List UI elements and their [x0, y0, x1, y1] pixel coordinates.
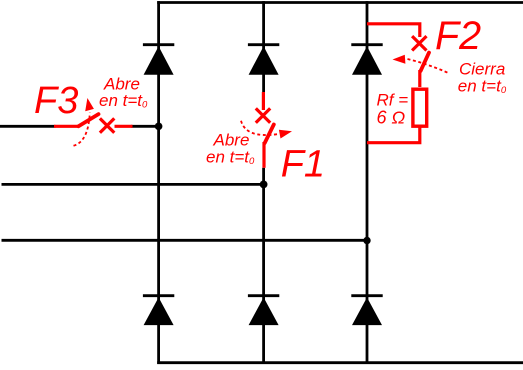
- switch F2 motion arrowhead: [393, 55, 406, 64]
- label resistor value Rf =: [377, 91, 409, 110]
- switch F3 contact cross mark: [100, 118, 114, 132]
- switch F1 contact cross mark: [256, 108, 270, 122]
- label F2 action en t=t0: [458, 77, 507, 97]
- wire leg 2 vertical upper: [262, 1, 265, 93]
- diode D1 top leg 1: [143, 45, 174, 75]
- switch F1 motion arrowhead: [279, 130, 292, 139]
- svg-text:en t=t0: en t=t0: [206, 148, 255, 168]
- label F1 action en t=t0: [206, 148, 255, 168]
- switch F2 contact cross mark: [412, 36, 426, 50]
- switch F2 blade: [421, 53, 429, 71]
- node junction dot phase B / leg 2: [260, 181, 268, 189]
- switch F3 opening motion dashed arc: [74, 113, 90, 146]
- diode D6 bottom leg 3: [351, 296, 382, 325]
- diode D5 bottom leg 2: [248, 296, 279, 325]
- wire leg 3 vertical: [366, 1, 369, 364]
- switch F3 wire right stub: [115, 125, 133, 128]
- node junction dot phase C / leg 3: [363, 237, 370, 244]
- wire phase B input: [2, 183, 264, 186]
- switch F3 wire left stub: [54, 125, 79, 128]
- node junction dot phase A / leg 1: [155, 123, 163, 131]
- label F3: [34, 80, 78, 122]
- switch F2 branch bottom wire: [367, 128, 420, 143]
- switch F1 wire bottom stub: [262, 142, 265, 168]
- wire leg 1 vertical: [157, 1, 160, 364]
- switch F2 branch top wire: [367, 24, 420, 37]
- svg-text:6 Ω: 6 Ω: [377, 107, 406, 127]
- switch F1 wire top stub: [262, 92, 265, 110]
- switch F2 closing motion dashed arc: [408, 59, 450, 74]
- label F3 action Abre: [103, 75, 140, 94]
- diode D2 top leg 2: [248, 45, 279, 75]
- switch F3 motion arrowhead: [85, 98, 94, 111]
- label resistor value 6 ohm: [377, 107, 406, 127]
- svg-text:F2: F2: [435, 14, 481, 58]
- label F3 action en t=t0: [99, 91, 148, 111]
- label F1: [281, 144, 325, 186]
- wire top DC+ rail: [157, 1, 523, 4]
- wire phase C input: [2, 239, 368, 242]
- diode D3 top leg 3: [351, 45, 382, 75]
- switch F1 blade: [265, 125, 274, 144]
- label F2 action Cierra: [459, 60, 505, 79]
- svg-text:en t=t0: en t=t0: [99, 91, 148, 111]
- svg-text:F3: F3: [34, 80, 78, 122]
- switch F1 opening motion dashed arc: [241, 121, 277, 135]
- svg-text:en t=t0: en t=t0: [458, 77, 507, 97]
- svg-text:F1: F1: [281, 144, 325, 186]
- switch F3 blade: [79, 114, 99, 126]
- wire phase A input: [0, 125, 159, 128]
- wire leg 2 vertical lower: [262, 168, 265, 364]
- label F1 action Abre: [213, 131, 250, 150]
- switch F2 wire to resistor: [418, 70, 421, 87]
- wire bottom DC- rail: [157, 361, 523, 364]
- diode D4 bottom leg 1: [143, 296, 174, 325]
- resistor Rf body: [413, 89, 427, 126]
- label F2: [435, 14, 481, 58]
